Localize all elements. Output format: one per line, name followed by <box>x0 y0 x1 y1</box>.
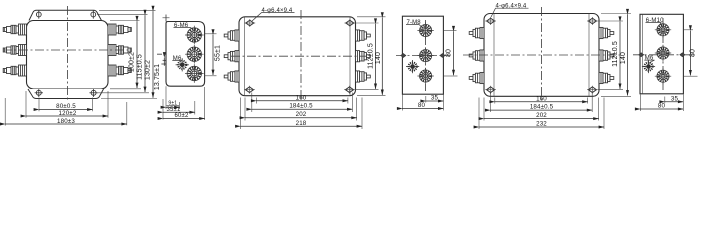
svg-text:180±3: 180±3 <box>57 118 75 125</box>
svg-text:184±0.5: 184±0.5 <box>289 103 313 110</box>
svg-text:202: 202 <box>296 111 307 118</box>
svg-text:80: 80 <box>690 49 697 57</box>
svg-text:35±1: 35±1 <box>167 107 181 113</box>
svg-text:80: 80 <box>418 102 426 109</box>
svg-text:112±0.5: 112±0.5 <box>612 41 619 67</box>
svg-text:6-M10: 6-M10 <box>646 18 664 24</box>
svg-text:M6: M6 <box>645 56 654 62</box>
svg-text:130±2: 130±2 <box>145 60 152 80</box>
svg-text:140: 140 <box>620 52 627 64</box>
svg-text:112±0.5: 112±0.5 <box>368 43 375 69</box>
svg-text:202: 202 <box>536 112 547 119</box>
svg-text:218: 218 <box>296 120 307 127</box>
svg-text:120±2: 120±2 <box>59 110 77 117</box>
svg-text:35: 35 <box>671 95 679 102</box>
svg-text:100±2: 100±2 <box>129 52 136 72</box>
svg-text:80: 80 <box>658 103 666 110</box>
svg-text:6-M6: 6-M6 <box>174 23 189 29</box>
svg-text:184±0.5: 184±0.5 <box>530 104 554 111</box>
svg-text:M6: M6 <box>173 56 182 62</box>
svg-text:232: 232 <box>536 121 547 128</box>
svg-text:60±2: 60±2 <box>175 113 189 119</box>
svg-text:35: 35 <box>431 95 439 102</box>
svg-text:115±0.5: 115±0.5 <box>137 54 144 80</box>
svg-text:13.75±1: 13.75±1 <box>154 64 161 90</box>
svg-text:55±1: 55±1 <box>215 45 222 61</box>
svg-text:140: 140 <box>375 52 382 64</box>
